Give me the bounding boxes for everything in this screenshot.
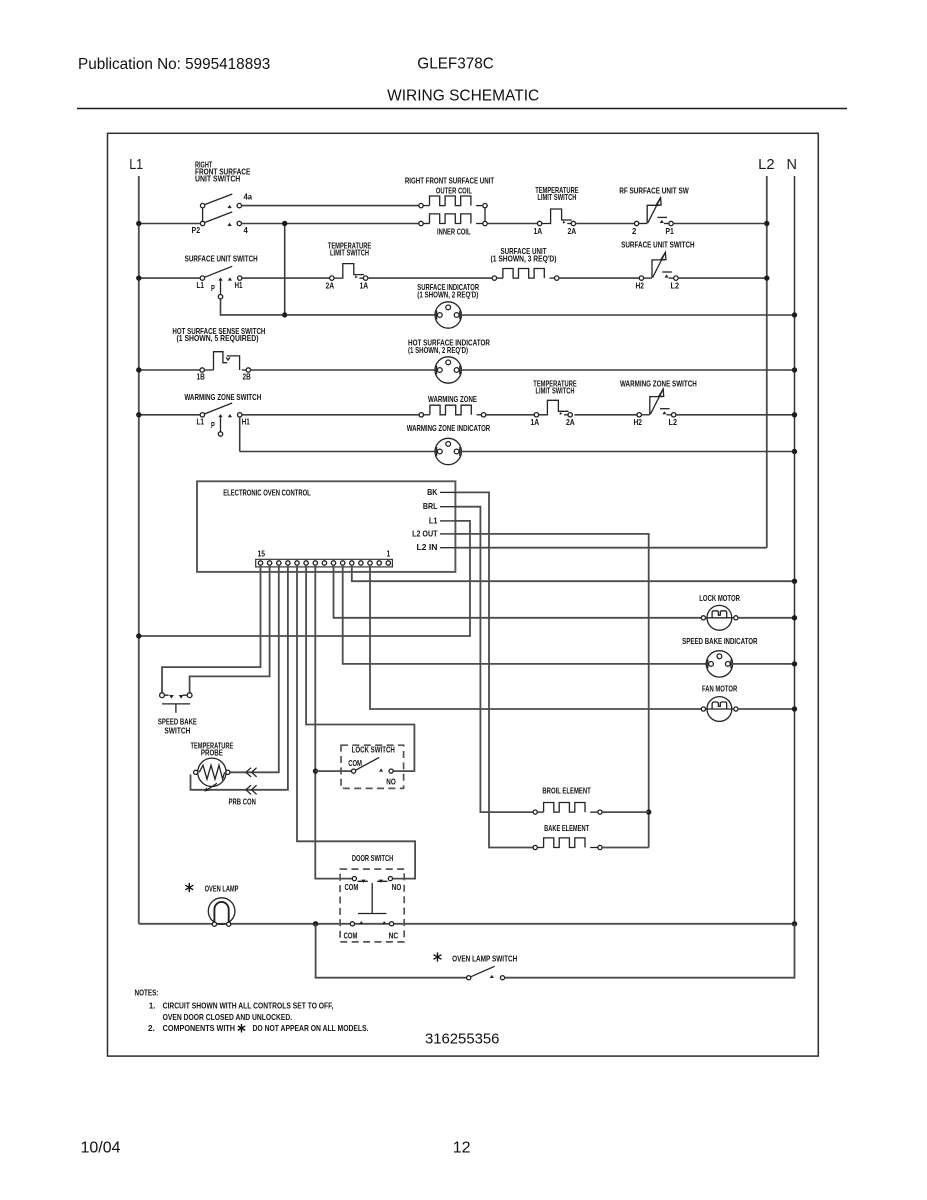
node branch row1 to row2 connector xyxy=(284,224,286,315)
svg-text:LIMIT SWITCH: LIMIT SWITCH xyxy=(536,386,575,395)
pin 3 xyxy=(368,561,372,565)
svg-text:1A: 1A xyxy=(531,418,540,427)
svg-text:(1 SHOWN, 2 REQ'D): (1 SHOWN, 2 REQ'D) xyxy=(408,346,468,355)
svg-text:COM: COM xyxy=(348,759,362,768)
wire H1 branch to warming zone indicator xyxy=(240,451,436,453)
svg-text:SWITCH: SWITCH xyxy=(164,726,190,735)
indicator surface indicator xyxy=(435,302,461,328)
wire bake element to L2 OUT xyxy=(602,847,649,849)
pin 5 xyxy=(350,561,354,565)
svg-text:BRL: BRL xyxy=(423,502,438,511)
svg-text:1: 1 xyxy=(387,549,391,558)
switch right front surface unit switch (double pole) xyxy=(200,203,204,207)
svg-text:P2: P2 xyxy=(192,226,201,235)
svg-text:2: 2 xyxy=(632,227,637,236)
svg-text:RF SURFACE UNIT SW: RF SURFACE UNIT SW xyxy=(619,186,689,195)
switch surface unit switch xyxy=(200,276,204,280)
svg-text:L1: L1 xyxy=(197,418,205,427)
svg-text:OVEN DOOR CLOSED AND UNLOCKED.: OVEN DOOR CLOSED AND UNLOCKED. xyxy=(163,1012,293,1022)
svg-text:L1: L1 xyxy=(197,281,205,290)
svg-text:ELECTRONIC OVEN CONTROL: ELECTRONIC OVEN CONTROL xyxy=(223,489,311,498)
wire row3 L1 to 1B xyxy=(139,369,200,371)
door switch box xyxy=(340,869,404,942)
wire L2 OUT to elements xyxy=(455,534,648,848)
wire 1A to surface unit coil xyxy=(368,277,493,279)
svg-text:P: P xyxy=(211,284,215,293)
svg-text:OUTER COIL: OUTER COIL xyxy=(436,186,472,195)
wire hot surface indicator to N rail xyxy=(460,369,794,371)
asterisk oven lamp xyxy=(185,883,193,892)
wire P1 to L2 rail xyxy=(673,223,767,225)
indicator hot surface indicator xyxy=(435,357,461,383)
motor lock motor xyxy=(707,605,732,630)
svg-text:Publication No: 5995418893: Publication No: 5995418893 xyxy=(78,56,270,73)
svg-text:N: N xyxy=(787,157,797,173)
title underline xyxy=(77,108,847,110)
svg-text:CIRCUIT SHOWN WITH ALL CONTROL: CIRCUIT SHOWN WITH ALL CONTROLS SET TO O… xyxy=(163,1001,334,1011)
wire pin6 to speed bake indicator xyxy=(343,565,708,664)
svg-text:SPEED BAKE: SPEED BAKE xyxy=(158,717,197,726)
svg-text:(1 SHOWN, 5 REQUIRED): (1 SHOWN, 5 REQUIRED) xyxy=(177,334,259,343)
wire lock motor to N rail xyxy=(738,617,795,619)
svg-text:L2 IN: L2 IN xyxy=(417,543,438,552)
svg-text:15: 15 xyxy=(258,549,266,558)
wire door switch branch to oven lamp switch xyxy=(316,924,467,978)
svg-text:INNER COIL: INNER COIL xyxy=(437,227,471,236)
schematic border frame xyxy=(108,133,819,1056)
switch hot surface sense switch xyxy=(200,368,204,372)
svg-text:12: 12 xyxy=(453,1140,471,1157)
wire broil element to L2 OUT xyxy=(602,811,649,813)
svg-text:DO NOT APPEAR ON ALL MODELS.: DO NOT APPEAR ON ALL MODELS. xyxy=(253,1023,369,1033)
svg-text:PROBE: PROBE xyxy=(201,748,223,757)
wire pin11 to door switch NO xyxy=(297,565,415,878)
wire 2B to hot surface indicator xyxy=(251,369,437,371)
svg-text:P1: P1 xyxy=(666,227,675,236)
switch lock switch xyxy=(352,769,356,773)
motor fan motor xyxy=(707,697,732,722)
wire row1 L1 to P2 xyxy=(139,223,201,225)
wire pin9 to lock switch COM and door switch COM xyxy=(315,565,352,878)
svg-text:L1: L1 xyxy=(129,157,143,173)
svg-text:L2: L2 xyxy=(758,157,775,173)
lock switch box xyxy=(341,745,404,788)
lamp oven lamp xyxy=(208,898,235,925)
wire L1 rail xyxy=(138,176,140,924)
wire speed bake indicator to N rail xyxy=(732,663,795,665)
svg-text:2A: 2A xyxy=(568,227,577,236)
svg-text:RIGHT FRONT SURFACE UNIT: RIGHT FRONT SURFACE UNIT xyxy=(405,176,494,185)
asterisk oven lamp switch xyxy=(434,952,442,961)
svg-text:FAN MOTOR: FAN MOTOR xyxy=(702,684,737,693)
svg-text:NO: NO xyxy=(392,883,402,892)
wire surface indicator to N rail xyxy=(460,314,794,316)
svg-text:BAKE ELEMENT: BAKE ELEMENT xyxy=(544,824,589,833)
pin 13 xyxy=(277,561,281,565)
wire pin7 to lock motor xyxy=(334,565,702,618)
svg-text:PRB CON: PRB CON xyxy=(229,797,256,806)
svg-text:4: 4 xyxy=(244,226,249,235)
svg-text:L1: L1 xyxy=(429,516,438,525)
svg-text:1A: 1A xyxy=(534,227,543,236)
wire 4a to outer coil xyxy=(242,205,419,207)
wire fan motor to N rail xyxy=(738,708,795,710)
wire L2 contact to L2 rail xyxy=(678,277,767,279)
indicator warming zone indicator xyxy=(435,438,461,464)
wire row2 L1 to switch xyxy=(139,277,200,279)
svg-text:NOTES:: NOTES: xyxy=(135,987,159,997)
wire warming zone switch to N rail xyxy=(676,414,795,416)
wire 2A to warming zone switch right xyxy=(574,414,637,416)
svg-text:2A: 2A xyxy=(566,418,575,427)
switch warming zone switch left xyxy=(200,413,204,417)
pin 8 xyxy=(322,561,326,565)
wire coil to 1A row4 xyxy=(486,414,534,416)
wire outer coil down to inner coil row xyxy=(484,208,486,222)
svg-text:WARMING ZONE SWITCH: WARMING ZONE SWITCH xyxy=(184,393,261,402)
pin 10 xyxy=(304,561,308,565)
svg-text:H1: H1 xyxy=(242,418,250,427)
svg-text:LOCK MOTOR: LOCK MOTOR xyxy=(699,594,740,603)
svg-text:DOOR SWITCH: DOOR SWITCH xyxy=(352,854,394,863)
svg-text:2A: 2A xyxy=(326,282,335,291)
svg-text:LOCK SWITCH: LOCK SWITCH xyxy=(352,746,395,755)
wire oven lamp switch to N rail xyxy=(505,924,795,978)
wire pin13 to temperature probe xyxy=(230,565,279,772)
svg-text:LIMIT SWITCH: LIMIT SWITCH xyxy=(537,193,576,202)
svg-text:1.: 1. xyxy=(149,1001,156,1011)
wire pin5 to N rail xyxy=(352,565,795,581)
svg-text:2.: 2. xyxy=(148,1023,155,1033)
pin 1 xyxy=(386,561,390,565)
svg-text:P: P xyxy=(211,421,215,430)
wire pin14 to speed bake switch xyxy=(190,565,270,692)
indicator speed bake indicator xyxy=(706,651,732,677)
svg-text:GLEF378C: GLEF378C xyxy=(417,56,494,73)
svg-text:(1 SHOWN, 2 REQ'D): (1 SHOWN, 2 REQ'D) xyxy=(417,291,478,300)
wire L2 IN to L2 rail xyxy=(455,547,766,549)
pin 11 xyxy=(295,561,299,565)
wire lock switch COM junction xyxy=(316,770,352,772)
svg-text:NC: NC xyxy=(389,932,399,941)
svg-text:WARMING ZONE SWITCH: WARMING ZONE SWITCH xyxy=(620,379,697,388)
svg-text:SURFACE UNIT SWITCH: SURFACE UNIT SWITCH xyxy=(621,241,695,250)
svg-text:COM: COM xyxy=(345,883,359,892)
switch oven lamp switch xyxy=(467,976,471,980)
resistor inner coil xyxy=(419,221,423,225)
wire N rail xyxy=(794,176,796,924)
svg-text:4a: 4a xyxy=(244,193,253,202)
connector probe chevrons xyxy=(246,768,257,777)
wire pin15 to speed bake switch xyxy=(162,565,261,692)
pin 9 xyxy=(313,561,317,565)
svg-text:SURFACE UNIT SWITCH: SURFACE UNIT SWITCH xyxy=(185,255,258,264)
resistor temperature probe xyxy=(198,758,226,786)
wire warming zone indicator to N rail xyxy=(460,451,794,453)
switch door switch upper pole xyxy=(352,877,356,881)
pin 12 xyxy=(286,561,290,565)
resistor broil element xyxy=(533,810,537,814)
svg-text:OVEN LAMP: OVEN LAMP xyxy=(205,884,239,893)
svg-text:COMPONENTS WITH: COMPONENTS WITH xyxy=(163,1023,235,1033)
wire L2 rail xyxy=(766,176,768,548)
svg-text:WIRING SCHEMATIC: WIRING SCHEMATIC xyxy=(387,88,539,105)
svg-text:1B: 1B xyxy=(197,373,205,382)
svg-text:2B: 2B xyxy=(243,373,251,382)
wire P contact down to indicator branch xyxy=(221,299,284,315)
svg-text:L2 OUT: L2 OUT xyxy=(412,529,437,538)
switch door switch lower pole xyxy=(350,922,354,926)
svg-text:WARMING ZONE: WARMING ZONE xyxy=(428,395,477,404)
wire indicator branch to surface indicator xyxy=(286,314,436,316)
svg-text:OVEN LAMP SWITCH: OVEN LAMP SWITCH xyxy=(452,955,517,964)
wire inner coil to 1A xyxy=(487,223,537,225)
electronic oven control box xyxy=(197,481,455,572)
wire row4 L1 to switch xyxy=(139,414,200,416)
svg-text:COM: COM xyxy=(344,932,358,941)
svg-text:1A: 1A xyxy=(360,282,369,291)
svg-text:H2: H2 xyxy=(634,418,643,427)
pin 4 xyxy=(359,561,363,565)
svg-text:H2: H2 xyxy=(636,282,645,291)
svg-text:SPEED BAKE INDICATOR: SPEED BAKE INDICATOR xyxy=(682,637,757,646)
svg-text:10/04: 10/04 xyxy=(81,1140,121,1157)
wire oven lamp row L1 to N xyxy=(139,923,795,925)
wire 4 to inner coil xyxy=(242,223,419,225)
wire BRL to broil element xyxy=(455,507,533,812)
svg-text:LIMIT SWITCH: LIMIT SWITCH xyxy=(330,248,369,257)
svg-text:H1: H1 xyxy=(235,281,243,290)
pin 7 xyxy=(331,561,335,565)
wire H1 to 2A xyxy=(242,277,330,279)
resistor outer coil xyxy=(419,203,423,207)
svg-text:WARMING ZONE INDICATOR: WARMING ZONE INDICATOR xyxy=(407,424,491,433)
wire coil to H2 xyxy=(559,277,639,279)
svg-text:BROIL ELEMENT: BROIL ELEMENT xyxy=(542,787,590,796)
svg-text:316255356: 316255356 xyxy=(425,1030,499,1047)
pin 2 xyxy=(377,561,381,565)
wire H1 down to warming zone indicator row xyxy=(239,417,241,452)
svg-text:UNIT SWITCH: UNIT SWITCH xyxy=(195,175,240,184)
svg-text:BK: BK xyxy=(427,488,437,497)
wire L1 stub to L1 rail xyxy=(139,521,470,636)
wire pin12 to probe return xyxy=(191,565,288,790)
wire BK to bake element xyxy=(455,492,533,847)
svg-text:NO: NO xyxy=(386,778,396,787)
wire pin3 to fan motor xyxy=(370,565,701,709)
switch speed bake switch xyxy=(160,693,165,698)
pin 6 xyxy=(341,561,345,565)
svg-text:L2: L2 xyxy=(669,418,678,427)
pin 15 xyxy=(258,561,262,565)
svg-text:L2: L2 xyxy=(671,282,680,291)
pin 14 xyxy=(267,561,271,565)
wire H1 to warming zone coil xyxy=(242,414,419,416)
svg-text:(1 SHOWN, 3 REQ'D): (1 SHOWN, 3 REQ'D) xyxy=(491,255,557,264)
wire pin10 to lock switch NO xyxy=(306,565,414,771)
connector pin strip xyxy=(256,559,393,567)
resistor bake element xyxy=(533,845,537,849)
wire 2A to RF switch xyxy=(576,223,635,225)
